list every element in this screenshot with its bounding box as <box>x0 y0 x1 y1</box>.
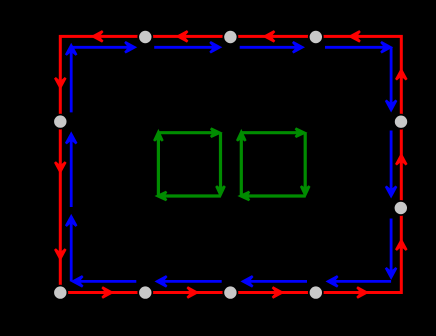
boundary nodes (gray circles) <box>53 30 408 300</box>
green arrow right-square right <box>301 186 309 195</box>
red arrow bottom 3 <box>273 287 283 297</box>
blue arrow bottom 3 <box>157 276 167 286</box>
blue arrow top 3 <box>293 42 303 52</box>
blue arrow right 1 <box>386 100 396 110</box>
green arrow left-square top <box>211 129 220 137</box>
wire blue bottom 1 <box>331 280 392 283</box>
red arrow left 3 <box>55 249 65 259</box>
outer red boundary loop (counterclockwise) <box>60 36 401 292</box>
node bottom 3 <box>223 286 237 300</box>
blue arrow left 3 <box>66 45 76 55</box>
green arrow left-square left <box>154 132 162 141</box>
blue arrow bottom 1 <box>328 276 338 286</box>
blue arrow top 1 <box>125 42 135 52</box>
wire green left-square right <box>219 133 222 194</box>
node left middle <box>53 115 67 129</box>
red arrow left 2 <box>55 162 65 172</box>
node top 3 <box>309 30 323 44</box>
green arrow right-square left <box>237 132 245 141</box>
green arrow left-square bottom <box>157 192 166 200</box>
node top 1 <box>138 30 152 44</box>
red arrow bottom 2 <box>187 287 197 297</box>
wire blue right 3 <box>390 219 393 276</box>
node bottom-left corner <box>53 286 67 300</box>
red arrow top 3 <box>265 31 275 41</box>
blue arrow top 4 <box>381 42 391 52</box>
red arrow bottom 1 <box>102 287 112 297</box>
red arrow top 4 <box>350 31 360 41</box>
green arrow left-square right <box>216 186 224 195</box>
wire blue right 2 <box>390 131 393 194</box>
blue arrow bottom 2 <box>243 276 253 286</box>
blue arrow right 2 <box>386 186 396 196</box>
blue arrow left 1 <box>66 216 76 226</box>
left green cell loop (clockwise) <box>158 133 220 196</box>
red arrow bottom 4 <box>357 287 367 297</box>
green arrow right-square top <box>296 129 305 137</box>
red arrow right 3 <box>396 240 406 250</box>
red arrow right 2 <box>396 155 406 165</box>
wire green right-square bottom <box>243 194 305 197</box>
wire blue right 1 <box>390 47 393 107</box>
wire blue left 1 <box>70 219 73 281</box>
node bottom 2 <box>138 286 152 300</box>
wire blue top 3 <box>240 46 300 49</box>
blue arrow top 2 <box>210 42 220 52</box>
wire green left-square top <box>158 131 218 134</box>
blue arrow right 3 <box>386 268 396 278</box>
wire green right-square right <box>304 133 307 194</box>
wire blue left 3 <box>70 48 73 113</box>
wire green right-square left <box>240 135 243 196</box>
inner blue loop (clockwise), drawn as node-to-node arrow segments <box>71 47 391 281</box>
node right lower <box>394 201 408 215</box>
wire green right-square top <box>241 131 303 134</box>
red arrow top 1 <box>93 31 103 41</box>
wire blue bottom 3 <box>160 280 222 283</box>
red arrow top 2 <box>178 31 188 41</box>
wire blue left 2 <box>70 137 73 208</box>
wire blue bottom 2 <box>246 280 308 283</box>
wire blue top 2 <box>154 46 217 49</box>
wire blue top 1 <box>71 46 132 49</box>
red arrow right 1 <box>396 70 406 80</box>
blue arrow bottom 4 <box>73 276 83 286</box>
wire red rectangle <box>60 36 401 292</box>
wire blue top 4 <box>325 46 388 49</box>
wire green left-square bottom <box>160 194 220 197</box>
wire green left-square left <box>157 135 160 196</box>
node right upper <box>394 115 408 129</box>
red arrow left 1 <box>55 78 65 88</box>
green arrow right-square bottom <box>240 192 249 200</box>
node bottom 4 <box>309 286 323 300</box>
right green cell loop (clockwise) <box>241 133 305 196</box>
node top 2 <box>223 30 237 44</box>
wire blue bottom 4 <box>76 280 137 283</box>
blue arrow left 2 <box>66 134 76 144</box>
